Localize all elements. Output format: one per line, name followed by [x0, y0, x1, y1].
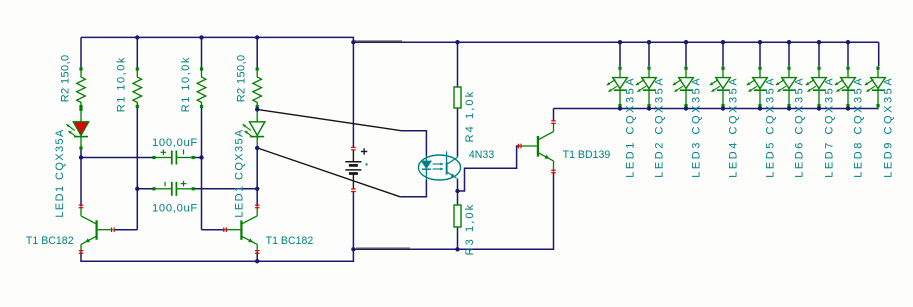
svg-text:R1 10,0k: R1 10,0k [115, 56, 127, 112]
svg-text:LED9 CQX35A: LED9 CQX35A [882, 76, 894, 178]
svg-text:T1 BC182: T1 BC182 [26, 235, 74, 247]
svg-text:R3 1,0k: R3 1,0k [464, 203, 476, 256]
svg-text:100,0uF: 100,0uF [152, 203, 198, 215]
svg-text:R2 150,0: R2 150,0 [59, 54, 71, 102]
svg-text:LED2 CQX35A: LED2 CQX35A [653, 76, 665, 178]
svg-text:4N33: 4N33 [469, 149, 494, 161]
svg-text:LED4 CQX35A: LED4 CQX35A [727, 76, 739, 178]
svg-text:LED1 CQX35A: LED1 CQX35A [233, 128, 245, 217]
svg-text:100,0uF: 100,0uF [152, 137, 198, 149]
svg-text:T1 BC182: T1 BC182 [266, 235, 314, 247]
svg-text:R1 10,0k: R1 10,0k [180, 56, 192, 112]
svg-text:LED1 CQX35A: LED1 CQX35A [624, 76, 636, 178]
svg-text:LED8 CQX35A: LED8 CQX35A [852, 76, 864, 178]
svg-text:R4 1,0k: R4 1,0k [464, 90, 476, 143]
svg-text:LED3 CQX35A: LED3 CQX35A [690, 76, 702, 178]
svg-text:T1 BD139: T1 BD139 [563, 149, 611, 161]
svg-text:LED5 CQX35A: LED5 CQX35A [764, 76, 776, 178]
svg-text:LED1 CQX35A: LED1 CQX35A [54, 128, 66, 217]
svg-text:LED7 CQX35A: LED7 CQX35A [823, 76, 835, 178]
svg-text:LED6 CQX35A: LED6 CQX35A [793, 76, 805, 178]
svg-text:R2 150,0: R2 150,0 [236, 54, 248, 102]
